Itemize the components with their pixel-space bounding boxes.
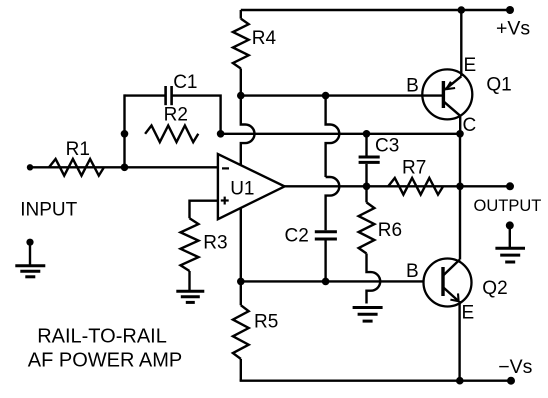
wire left feedback vertical (123, 94, 125, 167)
terminal +Vs (506, 6, 514, 14)
ground below R3 (176, 290, 204, 293)
svg-text:B: B (406, 76, 419, 97)
svg-text:C3: C3 (375, 136, 399, 157)
ground at output (495, 247, 525, 250)
wire Q1 collector vertical to output node (459, 134, 461, 260)
junction Q2 emitter / -Vs rail (456, 377, 464, 385)
resistor R3 (181, 218, 199, 271)
op-amp U1 non-inverting input plus sign (221, 199, 229, 201)
svg-text:R1: R1 (66, 139, 90, 160)
resistor R4 (233, 19, 249, 69)
wire R4 line hop over R2 row and down behind U1 (241, 96, 255, 282)
wire C2 bottom to lower row (324, 241, 326, 282)
svg-text:R7: R7 (402, 158, 426, 179)
wire bottom rail (-Vs) (240, 380, 511, 382)
junction Q1 collector / R2 row (456, 130, 464, 138)
svg-text:E: E (464, 55, 477, 76)
capacitor C3 top plate (359, 156, 380, 159)
terminal -Vs (507, 377, 515, 385)
output ground stem (509, 225, 511, 248)
svg-text:R2: R2 (164, 105, 188, 126)
wire Q2 emitter to -Vs rail (458, 301, 460, 381)
resistor R5 (233, 305, 249, 359)
svg-text:C1: C1 (173, 72, 197, 93)
wire top rail (+Vs) (241, 9, 510, 11)
op-amp U1 inverting input minus sign (222, 167, 229, 169)
transistor Q2 (424, 259, 472, 307)
ground at input (15, 264, 45, 267)
junction R4 / Q1 base row (237, 92, 245, 100)
input ground terminal dot (26, 239, 33, 246)
svg-text:OUTPUT: OUTPUT (474, 197, 542, 215)
svg-text:R3: R3 (203, 233, 227, 254)
op-amp U1 body (218, 154, 285, 219)
junction C3 top / R2 row (363, 130, 371, 138)
wire non-inverting input to R3 (190, 201, 218, 219)
wire Q1 base row (241, 94, 444, 96)
junction C2 line / Q1 base row (322, 92, 330, 100)
junction feedback / input row (121, 164, 129, 172)
svg-text:B: B (406, 261, 419, 282)
resistor R2 (145, 126, 198, 143)
svg-text:C2: C2 (285, 226, 309, 247)
wire C2 vertical with hops over R2 row (326, 96, 340, 177)
resistor R7 (388, 178, 443, 195)
transistor Q1 (422, 69, 472, 119)
wire Q1 collector stub (459, 116, 461, 134)
wire R3 bottom stub (188, 271, 190, 291)
terminal input (27, 164, 33, 170)
junction feedback / R2 row left (121, 130, 129, 138)
wire R6 top stub (365, 186, 367, 202)
wire input row (inverting input) (30, 166, 218, 168)
wire C2 vertical hop over output row (326, 177, 340, 230)
svg-text:Q1: Q1 (486, 74, 511, 95)
junction R4 line / lower row (237, 278, 245, 286)
wire output terminal stub (460, 185, 510, 187)
svg-text:AF POWER AMP: AF POWER AMP (28, 350, 182, 372)
junction output node (456, 183, 464, 191)
wire R2 row to Q1 collector (221, 133, 460, 135)
svg-text:−Vs: −Vs (498, 356, 532, 378)
wire R5 bottom corner to -Vs rail (240, 359, 242, 381)
svg-text:Q2: Q2 (482, 278, 507, 299)
resistor R1 (49, 159, 104, 176)
output ground terminal dot (506, 221, 514, 229)
junction C1 / R2 row right (217, 130, 225, 138)
wire R6 bottom hop over lower row (367, 254, 381, 304)
svg-text:R4: R4 (252, 28, 277, 49)
capacitor C3 bottom plate (359, 161, 380, 164)
svg-text:R6: R6 (378, 220, 402, 241)
terminal output (506, 182, 514, 190)
input ground stem (29, 242, 31, 266)
svg-text:RAIL-TO-RAIL: RAIL-TO-RAIL (37, 325, 167, 347)
junction +Vs rail / Q1 emitter (458, 6, 466, 14)
junction C2 bottom / lower row (322, 278, 330, 286)
wire C1 row left segment (125, 94, 166, 96)
wire op-amp output row (285, 185, 460, 187)
wire Q1 emitter to +Vs rail (460, 10, 462, 76)
svg-text:INPUT: INPUT (20, 200, 77, 221)
capacitor C1 left plate (164, 86, 167, 105)
resistor R6 (359, 202, 375, 253)
capacitor C1 right plate (170, 86, 173, 105)
wire C3 bottom stub (365, 164, 367, 186)
svg-text:+Vs: +Vs (496, 18, 530, 40)
junction C3 bottom R6 / output row (363, 183, 371, 191)
svg-text:R5: R5 (254, 311, 278, 332)
svg-text:U1: U1 (230, 178, 254, 199)
capacitor C2 bottom plate (315, 238, 337, 241)
svg-text:E: E (462, 303, 475, 324)
capacitor C2 top plate (315, 230, 337, 233)
ground below R6 (353, 306, 383, 309)
wire R5 top stub (240, 281, 242, 305)
wire lower row (Q2 base row) (241, 280, 424, 282)
svg-text:C: C (463, 115, 477, 136)
wire R4 bottom to row A (240, 69, 242, 96)
wire C1 row right segment with corner down to R2 row (172, 96, 220, 134)
wire +Vs corner into R4 (240, 10, 242, 19)
wire C3 top stub (365, 134, 367, 156)
